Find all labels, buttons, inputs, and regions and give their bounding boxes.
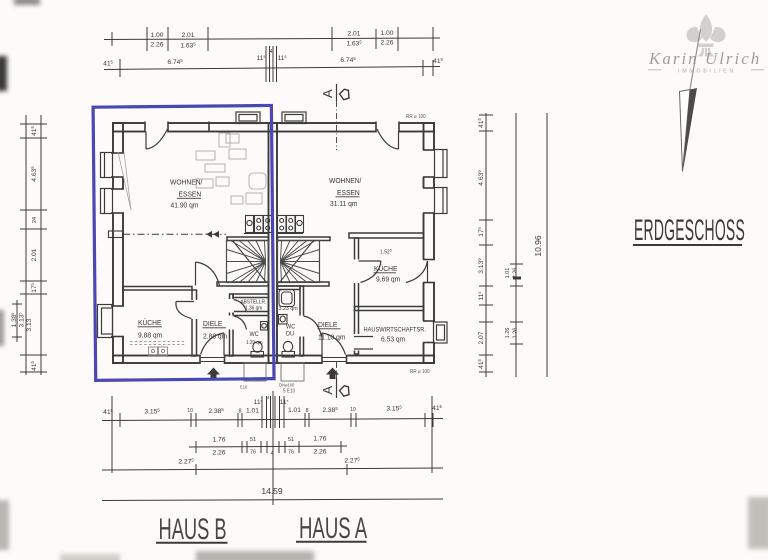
svg-text:41.90 qm: 41.90 qm [171,202,199,209]
svg-text:2.26: 2.26 [150,42,163,49]
svg-text:1.01: 1.01 [246,408,259,415]
svg-text:10.96: 10.96 [533,235,543,257]
svg-text:4: 4 [270,49,273,55]
svg-text:76: 76 [250,450,256,456]
svg-text:ERDGESCHOSS: ERDGESCHOSS [634,213,745,246]
svg-text:KÜCHE: KÜCHE [138,319,162,327]
svg-text:31.11 qm: 31.11 qm [330,201,358,208]
svg-text:6.53 qm: 6.53 qm [381,336,405,343]
svg-text:RR ⌀ 100: RR ⌀ 100 [410,369,430,375]
svg-text:1.00: 1.00 [150,32,163,39]
svg-text:5 E10: 5 E10 [283,388,295,394]
svg-text:2.26: 2.26 [513,268,519,279]
svg-text:2.88 qm: 2.88 qm [203,333,227,340]
svg-text:WC: WC [286,324,295,330]
svg-text:DN⌀100: DN⌀100 [279,382,295,387]
svg-text:10: 10 [350,407,356,413]
svg-text:11.10 qm: 11.10 qm [318,334,346,341]
svg-text:Karin Ulrich: Karin Ulrich [648,49,761,68]
svg-text:2.26: 2.26 [212,450,225,457]
svg-text:DIELE: DIELE [318,322,338,329]
svg-text:51: 51 [288,437,294,443]
svg-text:2.26: 2.26 [313,449,326,456]
svg-text:14.59: 14.59 [261,486,283,496]
svg-text:1.385: 1.385 [11,312,18,327]
svg-text:WC: WC [250,332,259,338]
svg-text:2.01: 2.01 [31,248,38,261]
svg-text:3.13: 3.13 [26,318,33,331]
svg-text:A: A [320,89,335,98]
svg-text:1.36 qm: 1.36 qm [245,305,262,311]
svg-text:1.76: 1.76 [212,437,225,444]
svg-text:2.01: 2.01 [347,31,360,38]
svg-text:ESSEN: ESSEN [337,190,360,197]
svg-text:KÜCHE: KÜCHE [374,265,398,273]
svg-text:E10: E10 [240,384,248,389]
svg-text:8: 8 [238,409,241,415]
svg-text:1.26: 1.26 [505,328,511,339]
svg-text:HAUS A: HAUS A [299,512,367,546]
svg-text:3.135: 3.135 [18,312,25,327]
svg-text:1.00: 1.00 [380,30,393,37]
svg-text:1.29 qm: 1.29 qm [246,340,263,346]
svg-text:A: A [320,385,335,394]
svg-text:10: 10 [187,408,193,414]
svg-text:2.07: 2.07 [478,331,485,344]
svg-text:2.01: 2.01 [181,32,194,39]
svg-text:HAUS B: HAUS B [159,514,227,547]
svg-text:51: 51 [250,437,256,443]
svg-text:DU: DU [286,331,294,337]
svg-text:24: 24 [32,217,38,223]
svg-text:9.69 qm: 9.69 qm [376,276,400,283]
svg-text:DIELE: DIELE [203,321,223,328]
svg-text:4: 4 [270,451,273,457]
svg-text:WOHNEN/: WOHNEN/ [170,179,202,186]
svg-text:2.26: 2.26 [380,40,393,47]
svg-text:HAUSWIRTSCHAFTSR.: HAUSWIRTSCHAFTSR. [364,327,427,333]
svg-text:4: 4 [267,395,270,400]
svg-text:1.01: 1.01 [505,268,511,279]
svg-text:76: 76 [288,450,294,456]
svg-text:1.01: 1.01 [288,407,301,414]
svg-text:1.76: 1.76 [313,436,326,443]
svg-text:IMMOBILIEN: IMMOBILIEN [678,68,736,74]
svg-text:9.88 qm: 9.88 qm [138,332,162,339]
svg-text:8: 8 [305,408,308,414]
svg-text:3.23 qm: 3.23 qm [279,306,299,312]
svg-text:ESSEN: ESSEN [179,191,202,198]
svg-text:1.26: 1.26 [513,328,519,339]
svg-text:RR ⌀ 100: RR ⌀ 100 [406,114,426,120]
svg-text:WOHNEN/: WOHNEN/ [329,178,361,185]
